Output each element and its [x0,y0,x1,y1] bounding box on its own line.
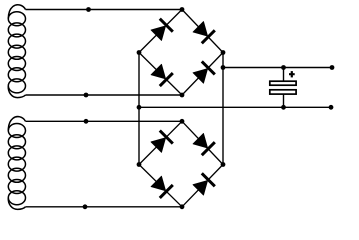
node dot bridge1 right [221,50,226,55]
inductor L1 (top transformer winding) [8,5,25,98]
node dot bridge1 top [180,7,185,12]
diode D4 (bridge1 lower-right) [192,61,215,84]
negative output wire [139,106,331,108]
capacitor C1 top plate [270,81,296,85]
capacitor polarity plus sign [289,71,295,77]
bridge1 lower-left edge [139,53,182,96]
node dot on L2 top wire [84,119,89,124]
diode D1 (bridge1 upper-left) [150,19,173,42]
junction dot positive tap [221,65,226,70]
capacitor C1 bottom plate [270,90,296,94]
junction dot capacitor bottom [281,105,286,110]
diode D6 (bridge2 upper-right) [192,132,215,155]
capacitor C1 bottom lead [283,94,285,108]
node dot bridge2 right [221,162,226,167]
bridge2 upper-left edge [139,121,182,164]
bridge2 lower-right edge [182,165,223,207]
output terminal negative [329,105,334,110]
bridge2 lower-left edge [139,165,182,207]
node dot bridge1 bottom [180,93,185,98]
positive bus wire (bridge1 right node to bridge2 right node) [222,53,224,165]
bridge2 upper-right edge [182,121,223,164]
node dot on L1 bottom wire [84,93,89,98]
output terminal positive [330,65,335,70]
capacitor C1 top lead [283,68,285,82]
bridge1 lower-right edge [182,53,223,96]
diode D8 (bridge2 lower-right) [192,173,215,196]
diode D5 (bridge2 upper-left) [150,131,173,154]
bridge1 upper-right edge [182,10,223,53]
node dot bridge2 top [180,119,185,124]
diode D3 (bridge1 lower-left) [150,63,173,86]
diode D7 (bridge2 lower-left) [150,175,173,198]
wire L2 bottom to bridge2 bottom node [26,206,183,208]
wire L2 top to bridge2 top node [26,120,183,122]
inductor L2 (bottom transformer winding) [8,117,25,210]
wire L1 bottom to bridge1 bottom node [26,94,183,96]
bridge1 upper-left edge [139,10,182,53]
junction dot negative tap [137,105,142,110]
positive output wire [223,67,332,69]
diode D2 (bridge1 upper-right) [192,20,215,43]
junction dot capacitor top [281,65,286,70]
negative bus wire (bridge1 left node to bridge2 left node) [138,53,140,165]
node dot on L2 bottom wire [83,204,88,209]
node dot bridge2 bottom [180,204,185,209]
node dot bridge2 left [137,162,142,167]
node dot bridge1 left [137,50,142,55]
wire L1 top to bridge1 top node [26,9,183,11]
node dot on L1 top wire [86,7,91,12]
